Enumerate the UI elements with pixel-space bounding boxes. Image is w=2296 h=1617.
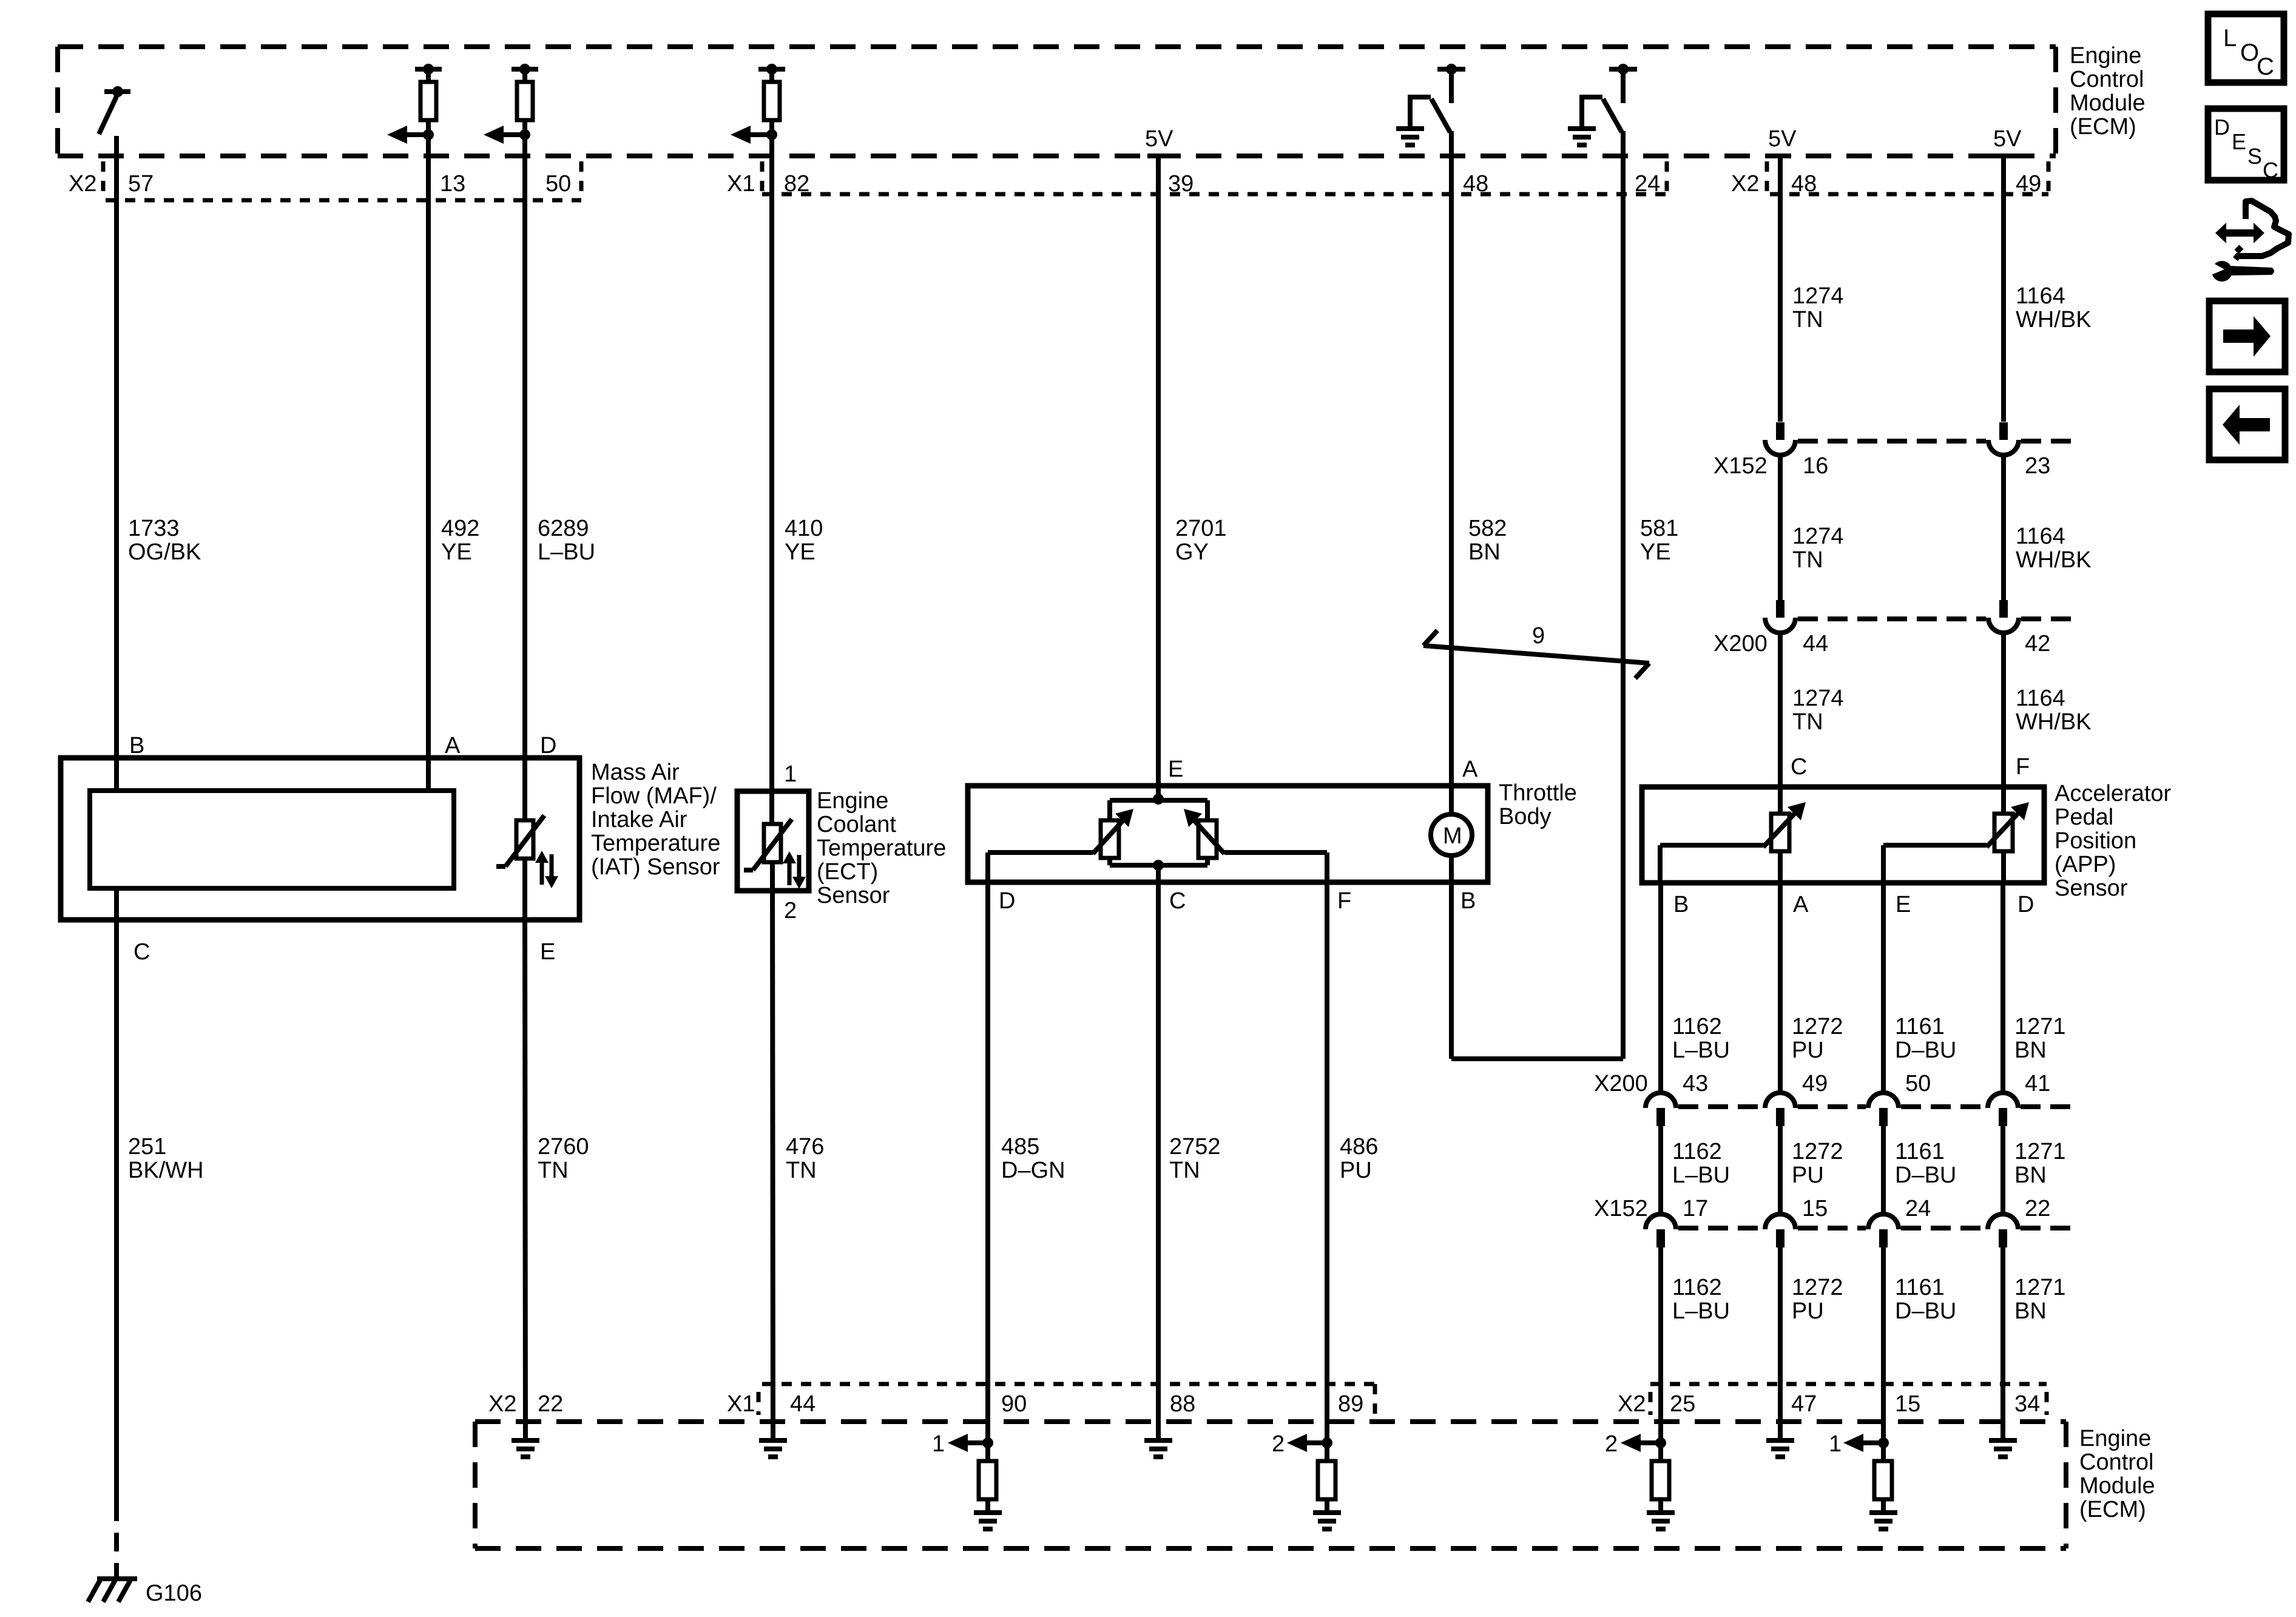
pin 24 (X152)	[1905, 1196, 1931, 1221]
throttle motor M	[1431, 786, 1472, 882]
svg-text:1271: 1271	[2014, 1139, 2066, 1164]
pin 43 (X200)	[1683, 1071, 1708, 1096]
wire 1272 PU : APP to X200	[1778, 883, 1783, 1093]
5V supply label pin 49 X2	[1993, 126, 2022, 156]
wire 6289 L-BU : ECM 50 to MAF D	[522, 135, 527, 820]
svg-text:Temperature: Temperature	[817, 836, 946, 861]
TPS2 wiper wire to pin F	[1224, 852, 1327, 882]
signal 1 arrow and resistor at ECM pin 90	[932, 1431, 1002, 1529]
svg-text:D: D	[2214, 115, 2230, 140]
APP pin letter B	[1673, 892, 1689, 917]
wire label 1271 BN (upper)	[2014, 1014, 2066, 1063]
ECM top connector row X2 (right) dotted box	[1767, 161, 2048, 194]
Engine Control Module (ECM) top dashed box	[58, 47, 2056, 156]
wire label 1272 PU (upper)	[1792, 1014, 1843, 1063]
ground at ECM pin 44	[759, 1440, 787, 1457]
svg-text:5V: 5V	[1993, 126, 2022, 152]
label: Accelerator Pedal Position (APP) Sensor	[2055, 781, 2172, 901]
ground at ECM pin 47	[1766, 1440, 1794, 1457]
svg-text:581: 581	[1640, 516, 1678, 541]
pin 50 (X200)	[1905, 1071, 1931, 1096]
svg-text:X152: X152	[1714, 453, 1768, 479]
svg-text:24: 24	[1635, 171, 1660, 197]
svg-text:23: 23	[2025, 453, 2050, 479]
X200 dashed connector line (top)	[1798, 616, 2080, 621]
MAF pin letter E	[540, 939, 555, 965]
svg-text:S: S	[2247, 144, 2262, 169]
wire label 1272 PU (middle)	[1792, 1139, 1843, 1188]
connector label X2 (bottom left)	[488, 1391, 516, 1417]
svg-text:YE: YE	[1640, 539, 1671, 565]
svg-text:1162: 1162	[1672, 1275, 1722, 1300]
svg-text:L–BU: L–BU	[538, 539, 595, 565]
APP pin letter C	[1791, 754, 1807, 780]
TB pin letter F	[1337, 888, 1351, 914]
svg-text:492: 492	[441, 516, 479, 541]
svg-text:TN: TN	[1792, 307, 1823, 333]
svg-text:1164: 1164	[2016, 524, 2065, 549]
svg-text:X200: X200	[1594, 1071, 1648, 1096]
svg-text:50: 50	[545, 171, 571, 197]
Accelerator Pedal Position (APP) sensor box	[1642, 787, 2044, 883]
svg-text:485: 485	[1001, 1134, 1039, 1160]
APP wire pot1 to pin A	[1778, 851, 1783, 883]
APP pin letter D	[2017, 892, 2034, 917]
svg-text:TN: TN	[538, 1158, 569, 1183]
svg-text:BK/WH: BK/WH	[128, 1158, 204, 1183]
svg-text:1164: 1164	[2016, 283, 2065, 309]
inline connector X152 pin 24	[1868, 1214, 1899, 1247]
wire IAT element to MAF E below thermistor	[522, 859, 527, 920]
connector label X2 (bottom right)	[1618, 1391, 1646, 1417]
pin 15 (X152)	[1802, 1196, 1828, 1221]
svg-text:1162: 1162	[1672, 1014, 1722, 1039]
svg-text:2752: 2752	[1169, 1134, 1221, 1160]
svg-text:X2: X2	[488, 1391, 516, 1417]
svg-text:X1: X1	[727, 1391, 755, 1417]
svg-text:L–BU: L–BU	[1672, 1298, 1730, 1324]
wire label 1271 BN (lower)	[2014, 1275, 2066, 1324]
svg-text:B: B	[1460, 888, 1476, 914]
pin 24	[1635, 171, 1660, 197]
svg-text:Throttle: Throttle	[1499, 780, 1577, 806]
pin 22	[538, 1391, 563, 1417]
pin 49 (X200)	[1802, 1071, 1828, 1096]
svg-text:Sensor: Sensor	[2055, 876, 2128, 901]
svg-text:1274: 1274	[1792, 524, 1844, 549]
pin 48	[1463, 171, 1488, 197]
connector label X1	[727, 171, 755, 197]
APP wiper wire pin B	[1660, 845, 1763, 883]
wire label 1274 TN (lower)	[1792, 686, 1844, 735]
TB pin letter B	[1460, 888, 1476, 914]
APP pin letter E	[1896, 892, 1911, 917]
wire 410 YE : ECM 82 to ECT 1	[769, 135, 774, 824]
svg-text:5V: 5V	[1145, 126, 1173, 152]
TB pin letter A	[1462, 757, 1478, 782]
pin 16	[1803, 453, 1828, 479]
wire 1164 WH/BK : ECM 49 X2 to X152-23	[2001, 156, 2006, 422]
svg-text:42: 42	[2025, 631, 2050, 657]
wire 486 PU : TB F to ECM 89	[1325, 882, 1329, 1443]
svg-text:Coolant: Coolant	[817, 812, 896, 837]
svg-text:WH/BK: WH/BK	[2016, 547, 2092, 573]
svg-text:50: 50	[1905, 1071, 1931, 1096]
X200 dashed connector line (bottom)	[1678, 1104, 2080, 1109]
wire label 1733 OG/BK	[128, 516, 201, 565]
Engine Control Module (ECM) bottom dashed box	[475, 1422, 2066, 1548]
svg-text:Control: Control	[2079, 1450, 2154, 1475]
TPS1 wiper wire to pin D	[988, 852, 1093, 882]
Mass Air Flow (MAF)/IAT sensor outer box	[61, 758, 579, 920]
TPS junction dot C	[1153, 860, 1164, 871]
svg-text:(ECM): (ECM)	[2070, 114, 2136, 140]
wire 476 TN : ECT 2 to ECM X1-44	[772, 862, 773, 1440]
svg-text:L–BU: L–BU	[1672, 1038, 1730, 1063]
svg-text:1274: 1274	[1792, 283, 1844, 309]
IAT thermistor inside MAF	[496, 815, 544, 866]
wire 251 BK/WH : MAF C to G106	[114, 888, 119, 1578]
sidebar previous-page arrow button	[2209, 389, 2285, 460]
svg-text:BN: BN	[2014, 1298, 2047, 1324]
connector label X2 (top right)	[1731, 171, 1759, 197]
wire 1271 BN : APP to X200	[2001, 883, 2005, 1093]
pin 42	[2025, 631, 2050, 657]
wire label 251 BK/WH	[128, 1134, 204, 1183]
svg-text:2701: 2701	[1175, 516, 1227, 541]
wire 1162 L–BU : APP to X200	[1658, 883, 1663, 1093]
resistor and signal arrow on ECM pin 13	[387, 64, 442, 144]
svg-text:1274: 1274	[1792, 686, 1844, 711]
svg-text:Intake Air: Intake Air	[591, 807, 687, 832]
svg-text:X200: X200	[1714, 631, 1768, 657]
pin 44	[1803, 631, 1828, 657]
svg-text:476: 476	[786, 1134, 824, 1160]
wire label 492 YE	[441, 516, 479, 565]
ECT pin 2	[784, 898, 797, 923]
TB pin letter E	[1168, 757, 1183, 782]
svg-text:47: 47	[1791, 1391, 1817, 1417]
inline connector X152 pin 15	[1765, 1214, 1795, 1247]
svg-text:1272: 1272	[1792, 1014, 1843, 1039]
svg-text:89: 89	[1338, 1391, 1363, 1417]
svg-text:D–BU: D–BU	[1895, 1163, 1956, 1188]
svg-text:15: 15	[1895, 1391, 1920, 1417]
svg-text:2: 2	[1605, 1431, 1618, 1457]
svg-text:TN: TN	[1792, 709, 1823, 735]
wire 581 YE : ECM 24 to throttle body B	[1621, 131, 1626, 1059]
TPS junction dot E	[1153, 794, 1164, 805]
svg-text:1272: 1272	[1792, 1139, 1843, 1164]
inline connector X152 pin 22	[1988, 1214, 2018, 1247]
wire label 1161 D–BU (upper)	[1895, 1014, 1956, 1063]
svg-text:(IAT) Sensor: (IAT) Sensor	[591, 854, 720, 880]
label: Engine Control Module (ECM) top	[2070, 43, 2146, 140]
svg-text:L–BU: L–BU	[1672, 1163, 1730, 1188]
svg-text:48: 48	[1463, 171, 1488, 197]
pin 13	[440, 171, 465, 197]
label: Mass Air Flow (MAF)/ Intake Air Temperature (IAT) Sensor	[591, 760, 720, 880]
signal 2 arrow and resistor at ECM pin 89	[1272, 1431, 1341, 1529]
svg-text:1: 1	[932, 1431, 945, 1457]
wire 582 BN : ECM 48 to throttle body A	[1449, 131, 1454, 814]
svg-text:(ECT): (ECT)	[817, 859, 878, 885]
wire 485 D-GN : TB D to ECM 90	[985, 882, 990, 1443]
pin 25	[1670, 1391, 1695, 1417]
pin 23	[2025, 453, 2050, 479]
svg-text:1162: 1162	[1672, 1139, 1722, 1164]
svg-text:M: M	[1443, 823, 1462, 849]
resistor and signal arrow on ECM pin 50	[484, 64, 538, 144]
X152 dashed connector line (bottom)	[1678, 1226, 2080, 1230]
5V supply label pin 48 X2	[1768, 126, 1797, 156]
ECT pin 1	[784, 761, 797, 787]
inline connector X152 pin 23	[1988, 422, 2019, 455]
svg-text:B: B	[129, 733, 144, 758]
label: Engine Control Module (ECM) bottom	[2079, 1426, 2155, 1522]
wire 1271 BN : X200 to X152	[2001, 1126, 2005, 1214]
wire 2752 TN : TB C to ECM 88	[1156, 865, 1161, 1440]
svg-text:22: 22	[2025, 1196, 2050, 1221]
svg-text:GY: GY	[1175, 539, 1209, 565]
svg-text:41: 41	[2025, 1071, 2050, 1096]
TPS1 potentiometer	[1093, 809, 1133, 858]
wire label 2752 TN	[1169, 1134, 1221, 1183]
ECM bottom connector row X2 (right) dotted box	[1650, 1384, 2047, 1415]
svg-text:16: 16	[1803, 453, 1828, 479]
svg-text:G106: G106	[146, 1581, 202, 1606]
wire 1162 L–BU : X200 to X152	[1658, 1126, 1663, 1214]
svg-text:13: 13	[440, 171, 465, 197]
wire label 485 D-GN	[1001, 1134, 1065, 1183]
svg-text:44: 44	[1803, 631, 1828, 657]
svg-text:44: 44	[790, 1391, 815, 1417]
switch inside ECM on pin 57	[99, 86, 130, 134]
wire label 1162 L–BU (middle)	[1672, 1139, 1730, 1188]
svg-text:17: 17	[1683, 1196, 1708, 1221]
wire 1161 D–BU : X200 to X152	[1881, 1126, 1886, 1214]
wire 1272 PU : X152 to ECM	[1778, 1247, 1783, 1440]
svg-text:YE: YE	[441, 539, 472, 565]
svg-text:BN: BN	[1468, 539, 1501, 565]
label: Throttle Body	[1499, 780, 1577, 829]
wire 492 YE : ECM 13 to MAF A	[426, 135, 431, 791]
APP wiper wire pin E	[1883, 845, 1987, 883]
pin 89	[1338, 1391, 1363, 1417]
svg-text:A: A	[1462, 757, 1478, 782]
wire label 2760 TN	[538, 1134, 589, 1183]
wire label 6289 L-BU	[538, 516, 595, 565]
svg-text:Module: Module	[2070, 90, 2146, 116]
inline connector X200 pin 50	[1868, 1093, 1899, 1126]
signal 2 arrow and resistor at ECM pin 25	[1605, 1431, 1675, 1529]
MAF pin letter A	[445, 733, 461, 758]
ground at ECM pin 88	[1144, 1440, 1172, 1457]
harness marker 9 crossing wires 582/581	[1423, 623, 1649, 678]
wire 1164 WH/BK : X200-42 to APP F	[2001, 633, 2006, 814]
TPS bracket wiring	[1110, 800, 1207, 865]
wire 1161 D–BU : X152 to ECM	[1881, 1247, 1886, 1443]
wire label 1164 WH/BK (lower)	[2016, 686, 2092, 735]
svg-text:F: F	[1337, 888, 1351, 914]
svg-text:39: 39	[1168, 171, 1194, 197]
MAF pin letter D	[540, 733, 556, 758]
wire 1274 TN : X200-44 to APP C	[1778, 633, 1783, 814]
svg-text:D–BU: D–BU	[1895, 1298, 1956, 1324]
sidebar adjust/hand-wrench icon	[2205, 201, 2289, 282]
wire 1161 D–BU : APP to X200	[1881, 883, 1886, 1093]
wire label 1161 D–BU (middle)	[1895, 1139, 1956, 1188]
svg-text:Mass Air: Mass Air	[591, 760, 680, 785]
svg-text:57: 57	[128, 171, 154, 197]
svg-text:Sensor: Sensor	[817, 883, 890, 908]
ECT thermistor	[744, 819, 792, 870]
svg-text:Flow (MAF)/: Flow (MAF)/	[591, 783, 717, 809]
svg-text:1272: 1272	[1792, 1275, 1843, 1300]
wire label 1162 L–BU (lower)	[1672, 1275, 1730, 1324]
signal 1 arrow and resistor at ECM pin 15	[1829, 1431, 1897, 1529]
inline connector X200 pin 42	[1988, 600, 2019, 633]
svg-text:Accelerator: Accelerator	[2055, 781, 2172, 806]
wire label 1164 WH/BK (middle)	[2016, 524, 2092, 573]
inline connector X200 pin 43	[1646, 1093, 1676, 1126]
svg-text:6289: 6289	[538, 516, 589, 541]
wire label 1162 L–BU (upper)	[1672, 1014, 1730, 1063]
MAF pin letter B	[129, 733, 144, 758]
wire 1274 TN : ECM 48 X2 to X152-16	[1778, 156, 1783, 422]
svg-text:1161: 1161	[1895, 1275, 1945, 1300]
svg-text:X1: X1	[727, 171, 755, 197]
svg-text:25: 25	[1670, 1391, 1695, 1417]
wire label 410 YE	[785, 516, 823, 565]
svg-text:48: 48	[1791, 171, 1817, 197]
pin 39	[1168, 171, 1194, 197]
wire 1271 BN : X152 to ECM	[2001, 1247, 2005, 1440]
pin 17 (X152)	[1683, 1196, 1708, 1221]
wire 2701 GY : ECM 39 to throttle body E	[1156, 156, 1161, 799]
svg-text:90: 90	[1001, 1391, 1027, 1417]
wire 1733 OG/BK : ECM 57 to MAF B	[114, 136, 119, 791]
connector label X1 (bottom)	[727, 1391, 755, 1417]
svg-text:Body: Body	[1499, 804, 1551, 829]
wire label 1271 BN (middle)	[2014, 1139, 2066, 1188]
svg-text:43: 43	[1683, 1071, 1708, 1096]
resistor and signal arrow on ECM pin 82	[731, 64, 785, 144]
svg-text:2760: 2760	[538, 1134, 589, 1160]
MAF pin letter C	[133, 939, 150, 965]
svg-text:1161: 1161	[1895, 1139, 1945, 1164]
pin 48 (X2)	[1791, 171, 1817, 197]
pin 49 (X2)	[2016, 171, 2041, 197]
svg-text:E: E	[1896, 892, 1911, 917]
svg-text:410: 410	[785, 516, 823, 541]
svg-text:X2: X2	[1618, 1391, 1646, 1417]
pin 15	[1895, 1391, 1920, 1417]
X152 dashed connector line (top)	[1798, 439, 2080, 444]
svg-text:A: A	[445, 733, 461, 758]
svg-text:Pedal: Pedal	[2055, 805, 2113, 830]
wire label 582 BN	[1468, 516, 1507, 565]
wire 1162 L–BU : X152 to ECM	[1658, 1247, 1663, 1443]
svg-text:E: E	[2232, 129, 2246, 154]
label: Engine Coolant Temperature (ECT) Sensor	[817, 788, 946, 908]
svg-text:Engine: Engine	[817, 788, 888, 814]
Throttle Body box	[968, 786, 1488, 882]
svg-text:F: F	[2016, 754, 2030, 780]
pin 88	[1170, 1391, 1195, 1417]
switch to ground on ECM pin 48	[1396, 64, 1465, 145]
svg-text:49: 49	[1802, 1071, 1828, 1096]
wire label 581 YE	[1640, 516, 1678, 565]
svg-text:D: D	[999, 888, 1015, 914]
wire label 1272 PU (lower)	[1792, 1275, 1843, 1324]
svg-text:TN: TN	[786, 1158, 817, 1183]
svg-text:C: C	[133, 939, 150, 965]
svg-text:B: B	[1673, 892, 1689, 917]
wire label 2701 GY	[1175, 516, 1227, 565]
svg-text:BN: BN	[2014, 1038, 2047, 1063]
svg-text:(ECM): (ECM)	[2079, 1497, 2146, 1522]
svg-text:1164: 1164	[2016, 686, 2065, 711]
svg-text:49: 49	[2016, 171, 2041, 197]
svg-text:C: C	[2263, 158, 2278, 183]
inline connector X200 pin 41	[1988, 1093, 2018, 1126]
svg-text:YE: YE	[785, 539, 815, 565]
inline connector X200 pin 49	[1765, 1093, 1795, 1126]
wire label 1164 WH/BK (upper)	[2016, 283, 2092, 333]
wire 1274 TN : X152-16 to X200-44	[1778, 455, 1783, 600]
wire label 486 PU	[1340, 1134, 1378, 1183]
ECM top connector row X2 (left) dotted box	[103, 161, 581, 200]
APP wire pot2 to pin D	[2001, 851, 2006, 883]
svg-text:5V: 5V	[1768, 126, 1797, 152]
svg-text:TN: TN	[1792, 547, 1823, 573]
svg-text:PU: PU	[1792, 1038, 1824, 1063]
svg-text:WH/BK: WH/BK	[2016, 709, 2092, 735]
ground at ECM pin 22	[512, 1440, 539, 1457]
wire throttle body B jog to 581 YE	[1451, 882, 1623, 1059]
svg-text:TN: TN	[1169, 1158, 1200, 1183]
svg-text:2: 2	[1272, 1431, 1285, 1457]
svg-text:PU: PU	[1340, 1158, 1372, 1183]
svg-text:D–GN: D–GN	[1001, 1158, 1065, 1183]
svg-text:Control: Control	[2070, 67, 2144, 92]
pin 34	[2014, 1391, 2040, 1417]
TB pin letter C	[1169, 888, 1186, 914]
svg-text:1: 1	[1829, 1431, 1842, 1457]
svg-text:486: 486	[1340, 1134, 1378, 1160]
svg-text:2: 2	[784, 898, 797, 923]
wire 2760 TN : MAF E to ECM X2-22	[525, 920, 525, 1440]
TB pin letter D	[999, 888, 1015, 914]
APP potentiometer 1	[1763, 802, 1806, 851]
connector label X200 (bottom)	[1594, 1071, 1648, 1096]
ground G106	[88, 1579, 137, 1602]
connector label X200 (top)	[1714, 631, 1768, 657]
svg-text:Position: Position	[2055, 828, 2136, 854]
svg-text:X152: X152	[1594, 1196, 1648, 1221]
connector label X2 (top left)	[69, 171, 96, 197]
svg-text:251: 251	[128, 1134, 166, 1160]
svg-text:Temperature: Temperature	[591, 831, 720, 856]
ECT thermistor up/down arrows	[783, 851, 806, 889]
wire label 1274 TN (upper)	[1792, 283, 1844, 333]
svg-text:E: E	[1168, 757, 1183, 782]
svg-text:A: A	[1793, 892, 1809, 917]
svg-text:Engine: Engine	[2079, 1426, 2151, 1451]
switch to ground on ECM pin 24	[1568, 64, 1637, 145]
label G106	[146, 1581, 202, 1606]
